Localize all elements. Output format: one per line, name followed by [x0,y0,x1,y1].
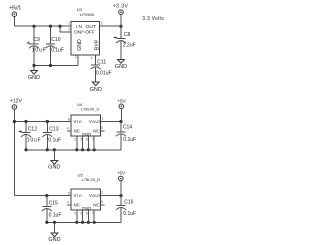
svg-text:OUT: OUT [86,24,97,30]
svg-text:Vout: Vout [89,119,101,124]
svg-text:+12V: +12V [10,99,22,105]
svg-text:6: 6 [86,138,88,142]
svg-text:NC: NC [74,129,81,134]
svg-text:Vin: Vin [74,119,82,124]
svg-text:3: 3 [80,138,82,142]
svg-text:8: 8 [68,192,70,196]
svg-text:3: 3 [68,28,70,32]
svg-text:5: 5 [101,200,103,204]
svg-text:0.1uF: 0.1uF [123,137,136,143]
svg-text:2: 2 [74,138,76,142]
svg-text:0.01uF: 0.01uF [96,71,112,77]
svg-text:0.1uF: 0.1uF [51,47,64,53]
svg-text:+3.3V: +3.3V [113,3,129,9]
svg-text:0.1uF: 0.1uF [123,211,136,217]
svg-text:GND: GND [28,75,40,81]
svg-text:GND: GND [48,164,60,170]
svg-text:1: 1 [101,117,103,121]
svg-text:L78L00_D: L78L00_D [81,107,100,112]
svg-text:C15: C15 [49,200,58,206]
svg-text:Vout: Vout [89,193,101,198]
svg-text:C8: C8 [124,32,131,38]
svg-text:7: 7 [92,138,94,142]
svg-text:2: 2 [74,212,76,216]
svg-text:ON/~OFF: ON/~OFF [74,30,95,36]
svg-text:4: 4 [67,201,69,205]
svg-text:1: 1 [101,191,103,195]
svg-text:GND: GND [90,87,102,93]
svg-text:BYP: BYP [95,39,101,50]
svg-text:C16: C16 [124,199,133,205]
svg-text:C14: C14 [123,125,132,131]
svg-text:Vin: Vin [74,193,82,198]
svg-text:4: 4 [67,127,69,131]
svg-text:1: 1 [68,22,70,26]
svg-text:2.2uF: 2.2uF [123,43,136,49]
svg-text:C12: C12 [28,126,37,132]
svg-text:10uF: 10uF [27,137,41,143]
svg-text:3: 3 [80,212,82,216]
svg-text:2: 2 [75,55,77,59]
svg-text:0.1uF: 0.1uF [48,137,61,143]
svg-text:NC: NC [93,203,100,208]
svg-text:L78L00_D: L78L00_D [82,177,101,182]
svg-text:+5V: +5V [117,170,126,175]
svg-text:6: 6 [86,212,88,216]
svg-text:+5V: +5V [117,99,126,104]
svg-text:GND: GND [82,132,92,137]
svg-text:5: 5 [101,126,103,130]
svg-text:5: 5 [101,22,103,26]
svg-text:8: 8 [68,117,70,121]
svg-text:C9: C9 [34,37,41,43]
svg-text:LP2985: LP2985 [80,12,95,17]
svg-text:C10: C10 [51,37,60,43]
svg-text:GND: GND [77,39,83,51]
svg-text:10uF: 10uF [32,47,46,53]
svg-text:GND: GND [115,64,127,70]
svg-text:IN: IN [76,24,83,30]
svg-text:+5V/1: +5V/1 [9,5,21,11]
svg-text:0.1uF: 0.1uF [49,212,62,218]
svg-text:NC: NC [93,129,100,134]
svg-text:4: 4 [91,56,93,60]
svg-text:C13: C13 [49,126,58,132]
svg-text:GND: GND [82,206,92,211]
svg-text:C11: C11 [97,60,106,66]
svg-text:3.3 Volts: 3.3 Volts [142,16,164,22]
svg-text:GND: GND [48,237,60,243]
svg-text:7: 7 [92,212,94,216]
svg-text:NC: NC [74,203,81,208]
